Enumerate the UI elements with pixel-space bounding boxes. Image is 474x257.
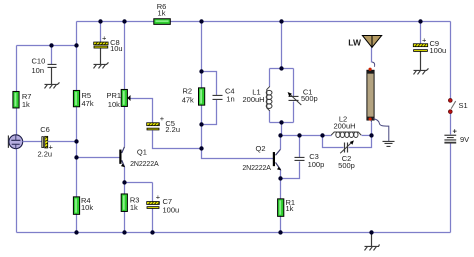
- wire Q1 collector: [122, 106, 125, 153]
- inductor L1: [266, 86, 272, 111]
- wire R2 column upper: [201, 21, 203, 87]
- node rail C7: [150, 230, 154, 234]
- wire L2 right to rod node: [362, 134, 372, 136]
- svg-text:C6: C6: [40, 125, 50, 134]
- label Q2: [242, 144, 271, 172]
- wire R2C4 bottom bridge: [202, 99, 217, 124]
- wire left column mid: [16, 108, 18, 134]
- wire C7 upper: [152, 182, 154, 201]
- wire Q1 emitter: [122, 160, 125, 182]
- svg-text:100p: 100p: [308, 160, 325, 169]
- node rail R3: [122, 230, 126, 234]
- resistor R5: [73, 90, 79, 106]
- svg-text:500p: 500p: [301, 94, 318, 103]
- svg-text:Q1: Q1: [137, 148, 147, 157]
- svg-text:2.2u: 2.2u: [165, 125, 180, 134]
- svg-text:+: +: [102, 34, 107, 43]
- svg-text:10n: 10n: [32, 66, 45, 75]
- wire node row y134.7: [281, 134, 332, 136]
- wire C5 lower: [153, 130, 202, 148]
- node C8 rail: [98, 19, 102, 23]
- label R5: [82, 91, 94, 108]
- wire L1C1 top bridge: [270, 67, 294, 69]
- node rail R1: [278, 230, 282, 234]
- wire R3 top: [124, 182, 126, 194]
- svg-text:2N2222A: 2N2222A: [242, 165, 271, 172]
- svg-text:47k: 47k: [82, 99, 94, 108]
- capacitor C4: [213, 95, 223, 99]
- svg-text:100u: 100u: [430, 46, 447, 55]
- wire C8 branch: [100, 21, 102, 42]
- wire Q2 collector: [276, 135, 281, 155]
- wire right rail mid: [450, 113, 452, 134]
- wire R2 column lower to Q2 base: [202, 105, 274, 158]
- node R2 rail: [199, 19, 203, 23]
- variable capacitor C2: [340, 140, 354, 153]
- label PR1: [107, 91, 122, 109]
- capacitor C6 electrolytic: [42, 136, 48, 148]
- node rail R4: [74, 230, 78, 234]
- node Q2 emitter: [278, 176, 282, 180]
- transistor Q2: [274, 152, 282, 170]
- label R1: [286, 198, 296, 213]
- antenna LW: [362, 35, 381, 47]
- label R7: [22, 92, 32, 109]
- node L2 left: [320, 133, 324, 137]
- label C7: [156, 193, 179, 215]
- svg-text:+: +: [160, 114, 165, 123]
- svg-text:200uH: 200uH: [333, 122, 355, 131]
- earth ground right of rod: [383, 141, 395, 146]
- capacitor C9 electrolytic: [413, 44, 427, 52]
- node rod bottom: [369, 133, 373, 137]
- svg-text:1n: 1n: [226, 95, 234, 104]
- wire C1 right branch upper: [293, 68, 295, 96]
- capacitor C3: [295, 157, 305, 160]
- label C8: [102, 34, 123, 54]
- node R2C4 top: [199, 69, 203, 73]
- label R6: [157, 2, 167, 18]
- wire column x76 upper: [76, 21, 78, 90]
- node rail ground: [369, 230, 373, 234]
- resistor R4: [73, 197, 79, 215]
- label C10: [32, 56, 46, 74]
- wire Q2 emitter vertical: [276, 162, 281, 178]
- node R2C4 bottom: [199, 122, 203, 126]
- svg-text:500p: 500p: [338, 161, 355, 170]
- wire left column upper: [16, 45, 18, 91]
- resistor R1: [278, 199, 284, 217]
- wire R1 bottom: [280, 216, 282, 232]
- wire left column lower: [16, 148, 18, 232]
- ground below C9: [414, 68, 429, 74]
- wire R2C4 top bridge: [202, 71, 217, 95]
- wire L1 left branch lower: [269, 110, 271, 122]
- label L2: [333, 114, 355, 130]
- svg-text:2N2222A: 2N2222A: [130, 161, 159, 168]
- wire Q1 base: [77, 156, 120, 158]
- node Q1 emitter: [122, 180, 126, 184]
- wire top rail left segment: [77, 20, 154, 22]
- node C10 top: [49, 43, 53, 47]
- node Q1 base junction: [74, 155, 78, 159]
- svg-text:PR1: PR1: [107, 91, 122, 100]
- wire column x76 bottom: [76, 214, 78, 232]
- wire emitter junction horizontal: [125, 181, 153, 183]
- svg-text:1k: 1k: [130, 203, 138, 212]
- label C1: [301, 87, 318, 103]
- wire C1 right branch lower: [293, 101, 295, 122]
- resistor R2: [199, 88, 205, 105]
- label LW: [348, 38, 362, 48]
- svg-text:200uH: 200uH: [243, 95, 265, 104]
- wire R1 top: [280, 178, 282, 198]
- wire horizontal y45: [17, 44, 77, 46]
- wire PR1 wiper to C5: [131, 98, 153, 122]
- wire R3 bottom: [124, 211, 126, 232]
- wire right rail upper: [450, 21, 452, 98]
- trimmer PR1: [121, 89, 130, 106]
- label C5: [160, 114, 180, 134]
- wire C3 branch upper: [299, 135, 301, 157]
- wire C10 ground stub: [51, 67, 53, 84]
- svg-text:10k: 10k: [108, 100, 120, 109]
- svg-text:R2: R2: [183, 87, 193, 96]
- wire L1 column from rail: [281, 21, 283, 68]
- node L1C1 bottom: [279, 120, 283, 124]
- wire bottom rail: [17, 231, 451, 233]
- svg-text:9V: 9V: [460, 135, 469, 144]
- wire C10 branch: [51, 45, 53, 64]
- transistor Q1: [120, 150, 125, 168]
- svg-text:Q2: Q2: [256, 144, 266, 153]
- wire C6 to column: [48, 140, 77, 142]
- label R3: [130, 195, 140, 212]
- svg-text:+: +: [422, 36, 427, 45]
- microphone MIC: [8, 135, 22, 149]
- wire C9 branch: [420, 21, 422, 43]
- capacitor C7 electrolytic: [147, 202, 160, 209]
- wire C2 branch left: [323, 135, 344, 147]
- svg-text:+: +: [156, 193, 161, 202]
- label Q1: [130, 148, 159, 168]
- label R2: [182, 87, 194, 105]
- label S1: [459, 101, 468, 110]
- wire PR1 column upper: [124, 21, 126, 89]
- label C9: [422, 36, 446, 56]
- wire L1 bottom to node: [281, 122, 283, 135]
- wire C9 ground stub: [420, 51, 422, 70]
- node L1 rail: [279, 19, 283, 23]
- node collector row left: [278, 133, 282, 137]
- switch S1: [448, 98, 455, 113]
- wire L1 left branch upper: [269, 68, 271, 86]
- svg-text:C10: C10: [32, 56, 46, 65]
- svg-text:1k: 1k: [286, 204, 294, 213]
- label C6: [37, 125, 53, 159]
- wire antenna lead: [371, 47, 373, 62]
- capacitor C8 electrolytic: [94, 42, 108, 48]
- node C9 rail: [418, 19, 422, 23]
- svg-text:+: +: [453, 126, 458, 135]
- wire mic to C6: [23, 140, 42, 142]
- wire column x76 lower: [76, 106, 78, 196]
- battery B1 9V: [444, 126, 457, 142]
- resistor R6: [154, 19, 171, 25]
- svg-text:1k: 1k: [22, 100, 30, 109]
- node L1C1 top: [279, 66, 283, 70]
- svg-text:100u: 100u: [163, 206, 180, 215]
- label R4: [81, 196, 93, 212]
- capacitor C5 electrolytic: [147, 123, 160, 130]
- svg-text:1k: 1k: [158, 9, 166, 18]
- variable capacitor C1: [288, 92, 302, 105]
- resistor R7: [13, 91, 19, 108]
- ferrite rod antenna: [367, 62, 389, 141]
- wire C2 branch right: [349, 135, 372, 147]
- svg-text:LW: LW: [348, 38, 362, 48]
- wire C3 branch lower: [281, 161, 300, 178]
- node C3 top: [297, 133, 301, 137]
- node C6 junction: [74, 139, 78, 143]
- ground below C8: [94, 62, 109, 68]
- inductor L2: [331, 132, 361, 138]
- wire C7 lower: [152, 208, 154, 232]
- svg-text:10k: 10k: [81, 203, 93, 212]
- label C2: [338, 154, 355, 170]
- label C4: [225, 87, 235, 104]
- wire top rail right segment: [171, 20, 451, 22]
- svg-text:S1: S1: [459, 101, 468, 110]
- wire L1C1 bottom bridge: [270, 121, 294, 123]
- capacitor C10: [48, 64, 57, 67]
- wire rod bottom lead: [371, 122, 373, 135]
- node PR1 rail: [122, 19, 126, 23]
- svg-text:10u: 10u: [110, 44, 123, 53]
- label 9V: [460, 135, 469, 144]
- svg-text:+: +: [49, 142, 54, 151]
- resistor R3: [121, 194, 127, 212]
- ground below bottom rail: [365, 232, 380, 250]
- label C3: [308, 152, 325, 169]
- wire right rail lower: [450, 143, 452, 232]
- node x76 y45: [74, 43, 78, 47]
- svg-text:47k: 47k: [182, 95, 194, 104]
- wire C8 ground stub: [100, 48, 102, 64]
- ground below C10: [45, 82, 60, 88]
- label L1: [243, 88, 265, 104]
- node C5 junction: [199, 146, 203, 150]
